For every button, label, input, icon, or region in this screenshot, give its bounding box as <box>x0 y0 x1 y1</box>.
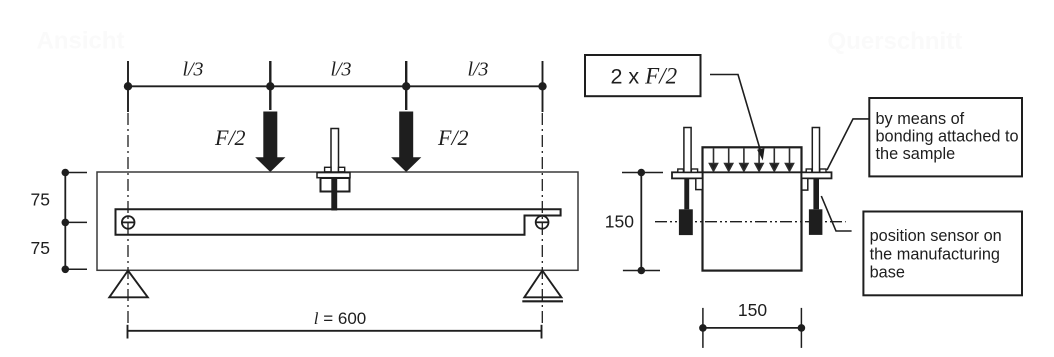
vertical dim dots <box>638 169 646 275</box>
bottom dimension 150 <box>703 327 802 329</box>
bolt foot left <box>325 167 331 172</box>
svg-text:150: 150 <box>738 300 767 320</box>
svg-text:base: base <box>870 264 905 282</box>
bottom 150 dots <box>699 324 805 332</box>
svg-text:2 x F/2: 2 x F/2 <box>611 64 678 89</box>
left dimension tick bottom <box>65 268 87 270</box>
section centerline <box>655 221 846 223</box>
vertical dim tick top <box>622 172 663 174</box>
svg-text:position sensor on: position sensor on <box>870 227 1002 245</box>
top dimension node dots <box>124 82 547 90</box>
bottom dimension line l=600 <box>128 330 542 332</box>
leader to bonding box <box>827 119 869 170</box>
callout box bonding <box>869 98 1022 176</box>
svg-text:F/2: F/2 <box>214 125 246 150</box>
left dimension tick top <box>65 172 87 174</box>
vertical dimension 150 <box>640 173 642 271</box>
vertical dim tick bottom <box>623 270 660 272</box>
leader to position sensor box <box>821 196 851 231</box>
left dimension line 75/75 <box>64 173 66 270</box>
right rod foot right <box>820 169 826 172</box>
left sensor rod <box>684 128 691 173</box>
bottom 150 tick left <box>702 308 704 348</box>
force arrow F/2 left <box>255 112 285 173</box>
right sensor rod <box>812 128 819 173</box>
top dimension tick x=270 <box>269 61 271 110</box>
left rod foot left <box>678 169 684 172</box>
leader arrowhead <box>757 148 764 160</box>
svg-text:l/3: l/3 <box>182 59 203 81</box>
svg-text:l/3: l/3 <box>330 59 351 81</box>
bolt plate <box>317 173 350 178</box>
beam outline <box>97 172 578 270</box>
left dimension tick middle <box>65 221 87 223</box>
svg-text:Ansicht: Ansicht <box>37 28 125 55</box>
bolt shaft <box>331 177 337 211</box>
left dimension dots <box>62 169 70 273</box>
force arrow F/2 right <box>391 112 421 173</box>
svg-text:75: 75 <box>31 190 50 210</box>
top dimension tick x=542 <box>542 61 544 112</box>
sensor pivot circle right <box>536 216 549 229</box>
left bonding plate <box>672 172 703 178</box>
bolt rod <box>331 129 339 173</box>
top dimension tick x=128 <box>127 61 129 112</box>
sensor bar <box>116 209 561 235</box>
centerline left support <box>127 113 129 326</box>
leader from load box <box>710 75 762 157</box>
svg-text:l = 600: l = 600 <box>314 309 366 328</box>
cross-section sample square <box>703 147 802 270</box>
svg-text:150: 150 <box>605 212 634 232</box>
right sensor block <box>809 209 823 235</box>
right bonding plate <box>802 172 832 178</box>
left rod foot right <box>691 169 697 172</box>
bottom dimension tick left <box>127 325 129 339</box>
svg-text:the manufacturing: the manufacturing <box>870 245 1000 263</box>
svg-text:bonding attached to: bonding attached to <box>876 128 1019 146</box>
svg-text:l/3: l/3 <box>467 59 488 81</box>
support right roller <box>524 271 561 298</box>
bottom 150 tick right <box>800 308 802 348</box>
bolt clamp box <box>321 178 350 192</box>
top dimension line <box>128 85 543 87</box>
svg-text:by means of: by means of <box>876 110 965 128</box>
sensor pivot circle left <box>122 216 135 229</box>
right rod foot left <box>806 169 812 172</box>
left bracket <box>696 178 703 189</box>
callout box position sensor <box>863 212 1022 296</box>
left sensor stem <box>684 178 689 209</box>
left sensor block <box>679 209 693 235</box>
roller base line <box>522 300 563 302</box>
support left pinned <box>109 271 148 298</box>
top dimension tick x=406 <box>405 61 407 110</box>
distributed load base line <box>703 171 802 173</box>
bottom dimension tick right <box>541 325 543 339</box>
centerline right support <box>541 113 543 326</box>
right bracket <box>802 178 808 190</box>
distributed load arrows <box>710 149 794 172</box>
svg-text:75: 75 <box>31 238 50 258</box>
svg-text:F/2: F/2 <box>437 125 469 150</box>
load label box 2 x F/2 <box>585 55 701 96</box>
bolt foot right <box>339 167 345 172</box>
svg-text:Querschnitt: Querschnitt <box>828 28 963 55</box>
right sensor stem <box>813 178 819 209</box>
svg-text:the sample: the sample <box>876 145 956 163</box>
